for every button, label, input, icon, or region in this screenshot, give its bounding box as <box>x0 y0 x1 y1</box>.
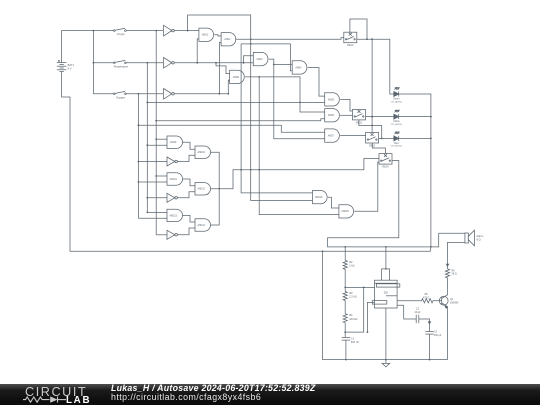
svg-text:470 Ω: 470 Ω <box>423 296 430 299</box>
svg-text:—: — <box>165 31 167 33</box>
svg-text:—: — <box>169 161 171 163</box>
svg-text:Temperature: Temperature <box>113 64 128 68</box>
svg-text:Yellow: Yellow <box>393 121 400 123</box>
svg-text:AND15: AND15 <box>341 210 349 213</box>
svg-text:2N3904: 2N3904 <box>450 301 459 304</box>
svg-text:555: 555 <box>384 292 389 295</box>
svg-text:AND14: AND14 <box>197 224 205 227</box>
svg-text:RE12: RE12 <box>356 121 363 124</box>
svg-text:100 kΩ: 100 kΩ <box>349 317 357 321</box>
svg-text:Oxygen: Oxygen <box>116 95 125 99</box>
svg-text:RE12: RE12 <box>347 44 354 47</box>
svg-text:AND11: AND11 <box>170 178 178 181</box>
svg-text:AND5: AND5 <box>328 98 335 101</box>
svg-text:9 V: 9 V <box>68 67 72 71</box>
svg-text:Cough: Cough <box>117 32 125 36</box>
svg-text:AND16: AND16 <box>315 196 323 199</box>
svg-text:AND1: AND1 <box>202 34 209 37</box>
svg-text:100 µF: 100 µF <box>434 334 442 337</box>
svg-text:R4: R4 <box>349 313 353 317</box>
svg-text:LTL_B07G2: LTL_B07G2 <box>391 146 403 148</box>
svg-text:10 µF: 10 µF <box>414 311 421 314</box>
svg-text:1 kΩ: 1 kΩ <box>349 264 354 268</box>
svg-text:—: — <box>165 63 167 65</box>
svg-text:AND9: AND9 <box>170 141 177 144</box>
svg-text:BAT1: BAT1 <box>68 63 75 67</box>
svg-text:AND7: AND7 <box>328 135 335 138</box>
svg-text:AND6: AND6 <box>328 114 335 117</box>
svg-text:Alarm: Alarm <box>477 234 484 238</box>
svg-text:AND13: AND13 <box>169 214 177 217</box>
svg-text:LTL_B07G2: LTL_B07G2 <box>391 101 403 103</box>
svg-text:AND3: AND3 <box>256 58 263 61</box>
svg-text:Red: Red <box>394 143 399 145</box>
svg-text:LTL_B07G2: LTL_B07G2 <box>391 124 403 126</box>
svg-text:—: — <box>169 235 171 237</box>
svg-text:C1: C1 <box>351 337 355 341</box>
svg-text:AND2: AND2 <box>224 38 231 41</box>
svg-text:AND10: AND10 <box>197 151 205 154</box>
svg-text:—: — <box>169 198 171 200</box>
svg-text:36 Ω: 36 Ω <box>452 273 457 276</box>
svg-text:500 nF: 500 nF <box>351 340 359 344</box>
svg-text:AND8: AND8 <box>233 76 240 79</box>
svg-text:8 Ω: 8 Ω <box>477 238 481 242</box>
svg-text:RE14: RE14 <box>383 166 390 169</box>
svg-text:AND12: AND12 <box>197 188 205 191</box>
svg-text:Green: Green <box>393 98 400 101</box>
svg-text:—: — <box>165 94 167 96</box>
svg-text:2.2 kΩ: 2.2 kΩ <box>349 295 357 299</box>
svg-text:R3: R3 <box>349 291 353 295</box>
svg-text:R2: R2 <box>349 260 353 264</box>
svg-text:AND4: AND4 <box>295 66 302 69</box>
